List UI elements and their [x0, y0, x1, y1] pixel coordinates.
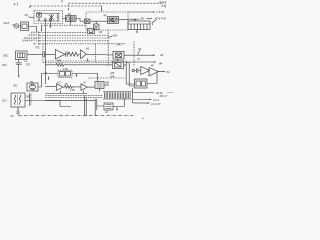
svg-text:30'2: 30'2	[26, 63, 31, 67]
svg-text:40#: 40#	[105, 81, 110, 84]
svg-text:70C: 70C	[35, 46, 40, 50]
svg-text:8#: 8#	[159, 61, 162, 65]
svg-text:#4C 4?: #4C 4?	[160, 95, 168, 98]
svg-text:30'1: 30'1	[2, 99, 7, 103]
svg-text:302: 302	[26, 95, 31, 99]
svg-text:1W: 1W	[99, 31, 103, 34]
svg-text:JW: JW	[140, 16, 144, 20]
svg-text:29,8: 29,8	[3, 21, 10, 25]
svg-text:302: 302	[13, 83, 18, 87]
svg-text:4,1B: 4,1B	[70, 89, 75, 92]
svg-text:JT: JT	[137, 57, 140, 61]
svg-text:4C: 4C	[11, 114, 14, 118]
svg-text:4P: 4P	[151, 65, 154, 68]
svg-text:7-9 4|: 7-9 4|	[156, 10, 164, 14]
svg-text:4?: 4?	[83, 82, 86, 85]
svg-text:4B: 4B	[86, 48, 89, 51]
svg-text:7-8 4-8: 7-8 4-8	[156, 16, 166, 20]
svg-text:4 4|: 4 4|	[161, 4, 166, 8]
svg-text:34: 34	[160, 53, 164, 57]
svg-text:47: 47	[45, 73, 48, 76]
svg-text:4 1: 4 1	[14, 3, 19, 7]
svg-text:24C: 24C	[116, 43, 122, 47]
svg-text:4,8#: 4,8#	[63, 68, 68, 71]
svg-text:4: 4	[142, 116, 144, 120]
svg-text:4,4 4: 4,4 4	[153, 98, 159, 102]
svg-text:32: 32	[138, 47, 142, 51]
svg-text:50: 50	[25, 13, 29, 17]
svg-text:4,4 4 4?: 4,4 4 4?	[151, 102, 161, 106]
svg-text:64: 64	[167, 70, 170, 74]
svg-text:4F: 4F	[104, 15, 107, 18]
svg-text:42: 42	[105, 110, 108, 114]
svg-text:4W: 4W	[113, 34, 117, 38]
svg-text:30'1: 30'1	[2, 63, 7, 67]
svg-text:30C: 30C	[3, 53, 9, 57]
